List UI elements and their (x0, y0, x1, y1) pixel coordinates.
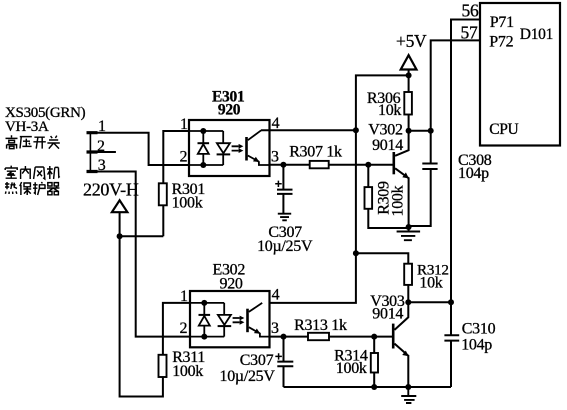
svg-text:104p: 104p (458, 165, 489, 182)
svg-text:P72: P72 (489, 34, 513, 51)
svg-text:10µ/25V: 10µ/25V (257, 238, 313, 255)
svg-text:CPU: CPU (489, 121, 518, 138)
svg-text:3: 3 (271, 320, 279, 337)
svg-text:104p: 104p (461, 336, 492, 353)
svg-text:10k: 10k (378, 102, 401, 119)
svg-text:4: 4 (272, 115, 280, 132)
svg-text:VH-3A: VH-3A (5, 119, 49, 135)
svg-text:9014: 9014 (372, 137, 403, 154)
svg-text:920: 920 (218, 102, 241, 119)
svg-text:920: 920 (220, 276, 243, 293)
svg-text:100k: 100k (390, 185, 407, 216)
svg-text:57: 57 (461, 22, 478, 42)
svg-text:100k: 100k (336, 360, 367, 377)
svg-text:56: 56 (462, 1, 479, 21)
svg-text:100k: 100k (172, 195, 203, 212)
svg-text:1: 1 (98, 118, 106, 135)
svg-text:1: 1 (180, 288, 188, 305)
svg-text:C310: C310 (462, 321, 496, 338)
svg-text:C307: C307 (240, 352, 274, 369)
svg-text:P71: P71 (490, 14, 514, 31)
svg-text:220V-H: 220V-H (83, 179, 139, 199)
svg-text:3: 3 (98, 157, 106, 174)
svg-text:10µ/25V: 10µ/25V (220, 368, 276, 385)
svg-text:100k: 100k (172, 363, 203, 380)
svg-text:+5V: +5V (396, 31, 427, 51)
svg-text:3: 3 (271, 148, 279, 165)
svg-text:D101: D101 (520, 26, 553, 43)
svg-text:1: 1 (180, 116, 188, 133)
svg-text:4: 4 (272, 287, 280, 304)
svg-text:2: 2 (180, 320, 188, 337)
svg-text:R307 1k: R307 1k (289, 144, 342, 161)
svg-text:2: 2 (180, 148, 188, 165)
svg-text:2: 2 (97, 138, 105, 155)
svg-text:10k: 10k (419, 275, 442, 292)
svg-text:R313 1k: R313 1k (294, 317, 347, 334)
svg-text:9014: 9014 (372, 306, 403, 323)
